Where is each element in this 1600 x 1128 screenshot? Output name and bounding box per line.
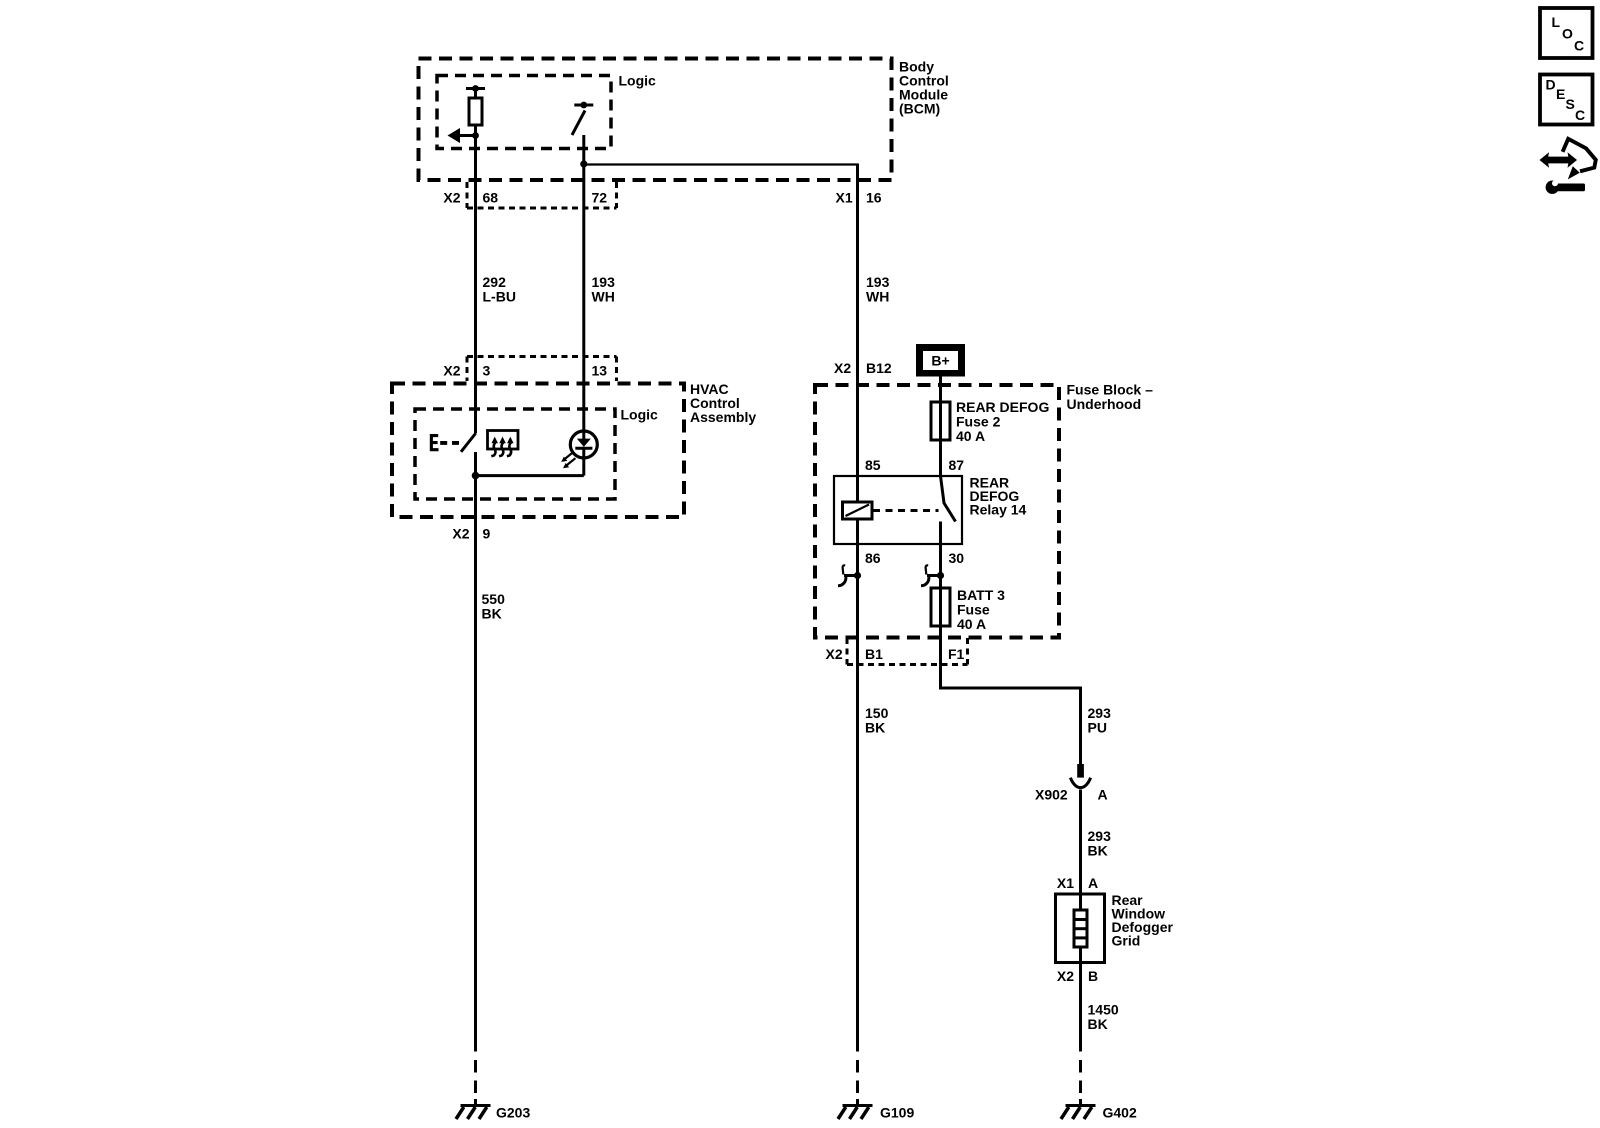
svg-text:B1: B1 <box>865 646 883 662</box>
svg-text:X2: X2 <box>443 363 460 379</box>
ground G109 <box>838 1099 873 1119</box>
connector X2 at fuse block bottom (pins B1, F1) <box>826 638 968 665</box>
heater grid icon <box>488 431 519 457</box>
wire 193 WH (BCM X1 16 to relay 85) <box>856 164 859 1052</box>
svg-text:Logic: Logic <box>621 407 659 423</box>
connector X2 (pin B12) at fuse block <box>834 360 892 376</box>
svg-text:Relay 14: Relay 14 <box>970 502 1027 518</box>
switch (HVAC defog switch blade) <box>461 434 476 452</box>
outline arrow <box>1563 139 1596 172</box>
wire 293 BK (X902 to defogger grid) <box>1079 790 1082 895</box>
svg-text:(BCM): (BCM) <box>899 101 940 117</box>
svg-text:G402: G402 <box>1103 1105 1137 1121</box>
connector X1 at BCM (pin 16) <box>836 190 882 206</box>
svg-text:30: 30 <box>949 550 965 566</box>
wire 193 WH (BCM 72 to HVAC 13 / LED) <box>582 135 585 431</box>
connector X2 at HVAC bottom (pin 9) <box>452 526 490 542</box>
svg-text:Logic: Logic <box>619 73 657 89</box>
tools icon (arrows and wrench) <box>1540 139 1596 194</box>
wire link to X1 16 <box>584 163 859 165</box>
svg-text:L-BU: L-BU <box>483 289 516 305</box>
grid heating element <box>1074 910 1087 947</box>
dashed wire tail to G109 <box>856 1060 859 1093</box>
svg-text:B12: B12 <box>866 360 892 376</box>
output arrow (BCM internal, points left) <box>448 128 479 143</box>
connector X1 (pin A) at defogger grid <box>1057 875 1098 891</box>
svg-text:WH: WH <box>592 289 615 305</box>
clip symbol on wire 86 <box>838 565 861 585</box>
svg-text:PU: PU <box>1088 720 1107 736</box>
wire B+ to relay 87 <box>939 377 942 477</box>
svg-text:85: 85 <box>865 457 881 473</box>
ground G402 <box>1061 1099 1096 1119</box>
HVAC Logic inner box <box>415 409 615 499</box>
svg-text:BK: BK <box>482 606 502 622</box>
svg-text:3: 3 <box>483 363 491 379</box>
svg-text:X2: X2 <box>834 360 851 376</box>
svg-text:X2: X2 <box>1057 968 1074 984</box>
relay REAR DEFOG Relay 14 box <box>834 476 962 544</box>
svg-text:16: 16 <box>866 190 882 206</box>
wire 550 BK (HVAC 9 to G203) <box>474 452 477 1052</box>
BCM Logic inner box <box>437 76 611 149</box>
svg-text:9: 9 <box>483 526 491 542</box>
svg-text:X902: X902 <box>1035 787 1068 803</box>
svg-text:E: E <box>1556 86 1565 102</box>
svg-text:86: 86 <box>865 550 881 566</box>
Rear Window Defogger Grid box <box>1056 894 1105 963</box>
wire 293 PU (fuse F1 to X902) <box>939 626 1081 764</box>
dashed wire tail to G402 <box>1079 1060 1082 1093</box>
svg-text:87: 87 <box>949 457 965 473</box>
svg-text:L: L <box>1552 14 1561 30</box>
wire (LED to junction) <box>476 474 584 477</box>
node (HVAC junction) <box>472 472 480 480</box>
svg-text:X2: X2 <box>826 646 843 662</box>
wire 292 L-BU (BCM 68 to HVAC 3) <box>474 136 477 434</box>
connector X2 (pin B) at defogger grid <box>1057 968 1098 984</box>
svg-text:A: A <box>1098 787 1108 803</box>
svg-text:Grid: Grid <box>1112 933 1141 949</box>
fuse REAR DEFOG Fuse 2 40 A <box>931 402 950 440</box>
node (junction on 193 WH branch) <box>580 160 587 167</box>
relay switch blade <box>941 476 956 522</box>
ground G203 <box>456 1099 491 1119</box>
inline connector X902 pin A <box>1070 764 1090 788</box>
dashed wire tail to G203 <box>474 1060 477 1093</box>
svg-text:A: A <box>1088 875 1098 891</box>
svg-text:S: S <box>1566 96 1575 112</box>
svg-text:72: 72 <box>592 190 608 206</box>
svg-text:X1: X1 <box>1057 875 1074 891</box>
B+ terminal <box>916 344 965 377</box>
svg-text:BK: BK <box>865 720 885 736</box>
wrench <box>1546 181 1559 194</box>
outline arrow head <box>1568 166 1580 179</box>
node E (external input label) <box>430 434 459 451</box>
svg-text:68: 68 <box>483 190 499 206</box>
svg-text:G109: G109 <box>880 1105 914 1121</box>
svg-text:BK: BK <box>1088 1016 1108 1032</box>
resistor (BCM internal pull-up) <box>466 85 485 137</box>
svg-text:13: 13 <box>592 363 608 379</box>
svg-text:D: D <box>1546 77 1556 93</box>
relay 30 stub <box>939 522 942 627</box>
svg-text:40 A: 40 A <box>956 428 985 444</box>
HVAC Control Assembly outer box <box>392 384 684 518</box>
relay actuation dashed link <box>873 509 939 512</box>
svg-text:O: O <box>1562 26 1573 42</box>
svg-text:WH: WH <box>866 289 889 305</box>
Body Control Module (BCM) outer box <box>419 59 892 181</box>
LOC icon box <box>1540 8 1593 58</box>
Fuse Block Underhood dashed box <box>815 385 1059 638</box>
svg-text:G203: G203 <box>496 1105 530 1121</box>
svg-text:X2: X2 <box>452 526 469 542</box>
svg-text:X2: X2 <box>443 190 460 206</box>
double arrow <box>1540 152 1578 167</box>
svg-text:C: C <box>1574 38 1584 54</box>
svg-text:Underhood: Underhood <box>1067 396 1142 412</box>
svg-text:B: B <box>1088 968 1098 984</box>
LED indicator <box>570 431 597 476</box>
svg-text:X1: X1 <box>836 190 853 206</box>
fuse BATT 3 40 A <box>931 588 950 626</box>
svg-text:BK: BK <box>1088 843 1108 859</box>
svg-text:Assembly: Assembly <box>690 409 756 425</box>
LED light arrows <box>561 452 575 469</box>
DESC icon box <box>1540 75 1593 125</box>
svg-text:B+: B+ <box>931 353 949 369</box>
svg-text:40 A: 40 A <box>957 616 986 632</box>
svg-text:F1: F1 <box>948 646 965 662</box>
connector X2 at BCM (pins 68, 72) <box>443 182 616 208</box>
wire grid element to X2 B <box>1079 948 1082 1052</box>
svg-text:C: C <box>1575 107 1585 123</box>
clip symbol on wire 30 <box>921 565 944 585</box>
wire into grid element <box>1079 894 1082 910</box>
transistor driver (BCM internal switch) <box>572 102 593 135</box>
relay coil <box>843 502 873 519</box>
connector X2 at HVAC (pins 3, 13) <box>443 357 616 382</box>
